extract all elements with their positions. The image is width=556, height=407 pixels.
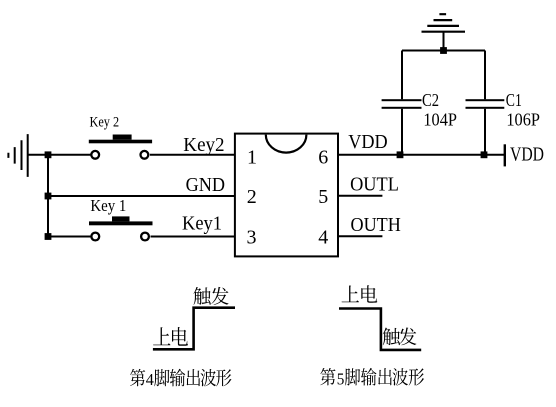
svg-text:C1: C1 bbox=[506, 90, 522, 110]
svg-text:4: 4 bbox=[318, 227, 328, 249]
svg-text:C2: C2 bbox=[422, 90, 439, 110]
svg-text:GND: GND bbox=[186, 174, 225, 196]
svg-text:3: 3 bbox=[247, 227, 257, 249]
svg-text:4: 4 bbox=[146, 370, 155, 389]
svg-text:OUTL: OUTL bbox=[350, 174, 399, 195]
svg-text:1: 1 bbox=[247, 147, 257, 169]
svg-text:104P: 104P bbox=[423, 109, 457, 129]
svg-text:5: 5 bbox=[318, 186, 328, 208]
svg-text:Key2: Key2 bbox=[183, 134, 224, 156]
svg-text:6: 6 bbox=[318, 147, 328, 169]
svg-text:2: 2 bbox=[247, 186, 257, 208]
svg-text:Key1: Key1 bbox=[182, 213, 222, 235]
svg-text:5: 5 bbox=[337, 369, 345, 388]
svg-text:106P: 106P bbox=[506, 109, 540, 129]
svg-text:Key 2: Key 2 bbox=[90, 115, 120, 131]
svg-text:Key 1: Key 1 bbox=[90, 196, 126, 215]
svg-text:OUTH: OUTH bbox=[351, 215, 401, 236]
svg-text:VDD: VDD bbox=[348, 132, 387, 153]
svg-text:VDD: VDD bbox=[510, 144, 544, 165]
